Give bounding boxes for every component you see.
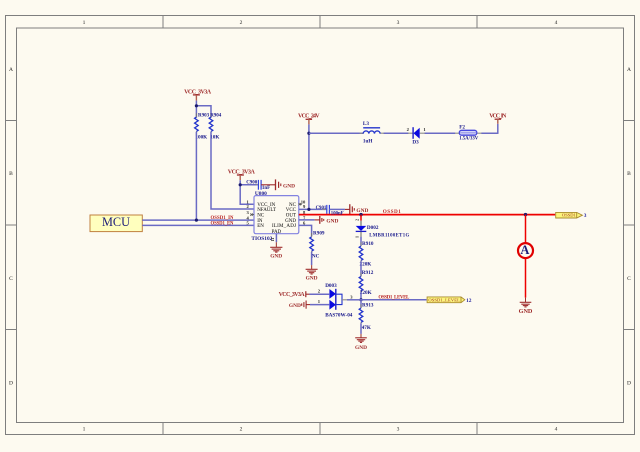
svg-text:VCC_3V3A: VCC_3V3A (279, 292, 306, 298)
svg-text:2: 2 (240, 427, 243, 433)
node rail junction (307, 132, 310, 135)
svg-text:C: C (9, 276, 13, 282)
svg-text:B: B (9, 171, 13, 177)
svg-text:OSSD1_LEVEL: OSSD1_LEVEL (378, 295, 410, 300)
svg-text:GND: GND (285, 219, 296, 224)
resistor R904 (209, 113, 222, 140)
svg-text:OSSD1: OSSD1 (562, 213, 576, 218)
capacitor C901 (316, 205, 330, 214)
svg-text:R913: R913 (362, 302, 374, 308)
svg-text:3: 3 (584, 213, 587, 219)
node pin9 junction (307, 208, 310, 211)
svg-text:100nF: 100nF (331, 211, 344, 216)
inductor L3 (360, 121, 384, 145)
svg-text:NFAULT: NFAULT (257, 208, 276, 213)
svg-text:EN: EN (257, 224, 264, 229)
wire R903 down to OSSD1_IN (195, 132, 197, 220)
resistor R913 (359, 300, 374, 331)
resistor R909 (310, 230, 325, 259)
wire VCC_3V3A down to divider junction (195, 101, 197, 118)
pin 3 NC stub (251, 214, 254, 216)
svg-text:D: D (9, 381, 13, 387)
power VCC_3V3A (D003) (279, 291, 310, 298)
diode D003 BAS70W-04 (325, 283, 353, 318)
svg-text:F2: F2 (459, 124, 465, 130)
svg-text:C900: C900 (246, 180, 258, 185)
power VCC_IN (489, 114, 507, 124)
MCU block (90, 215, 142, 232)
ground GND (pin7) (299, 216, 339, 224)
pin 10 NC stub (299, 203, 302, 205)
svg-text:1: 1 (83, 20, 86, 26)
diode D3 (407, 127, 427, 145)
svg-text:MCU: MCU (102, 215, 130, 229)
wire R912 to node (360, 292, 362, 300)
wire OSSD1_EN MCU to U800 pin5 (142, 224, 254, 226)
ground GND (C901) (329, 204, 368, 214)
wire VCC_3V3A to C900 node and pin1 (240, 180, 254, 204)
svg-text:12: 12 (466, 298, 472, 304)
svg-text:4: 4 (555, 427, 558, 433)
svg-text:GND: GND (355, 345, 367, 351)
svg-text:4: 4 (555, 20, 558, 26)
svg-text:IN: IN (257, 219, 263, 224)
svg-text:1: 1 (354, 236, 359, 238)
svg-text:GND: GND (326, 218, 338, 224)
ground GND (R913) (355, 338, 367, 343)
svg-text:100K: 100K (195, 135, 207, 141)
svg-text:D002: D002 (367, 225, 379, 231)
resistor R910 (359, 241, 374, 268)
node C900 junction (239, 183, 242, 186)
fuse F2 (455, 124, 482, 141)
ground GND (C900) (261, 179, 295, 190)
svg-text:C: C (627, 276, 631, 282)
power VCC_24V (298, 114, 320, 125)
svg-text:3: 3 (397, 427, 400, 433)
svg-text:D003: D003 (325, 283, 337, 289)
wire ammeter bottom (red) (525, 258, 527, 298)
port OSSD1_LEVEL pin12 (427, 297, 472, 304)
svg-text:GND: GND (289, 303, 301, 309)
svg-text:B: B (627, 171, 631, 177)
ground GND (D003 pin1) (289, 301, 310, 309)
resistor R903 (195, 113, 210, 140)
svg-text:GND: GND (519, 308, 533, 315)
wire node to OSSD1_LEVEL port (361, 299, 427, 301)
svg-text:VCC: VCC (286, 208, 297, 213)
svg-text:U800: U800 (255, 191, 267, 197)
node divider top junction (195, 104, 198, 107)
svg-text:R904: R904 (210, 114, 222, 119)
svg-text:R903: R903 (198, 114, 210, 119)
wire R910 to R912 (360, 261, 362, 276)
wire GND to D003 pin1 (310, 304, 329, 306)
wire PAD pin11 (275, 234, 277, 243)
svg-text:A: A (520, 243, 529, 257)
svg-text:OSSD1_LEVEL: OSSD1_LEVEL (428, 298, 460, 303)
svg-text:2: 2 (240, 20, 243, 26)
svg-text:D3: D3 (412, 139, 419, 145)
wire D003 pin3 to node (347, 299, 361, 301)
svg-text:GND: GND (306, 275, 318, 281)
op IC U800 TIOS102 (247, 191, 306, 242)
wire ammeter top (red) (525, 215, 527, 244)
node ammeter junction (524, 213, 527, 216)
svg-text:3: 3 (397, 20, 400, 26)
svg-text:R909: R909 (313, 230, 325, 236)
wire R909 to GND (311, 252, 313, 265)
svg-text:GND: GND (270, 254, 282, 260)
svg-text:2: 2 (354, 219, 359, 221)
wire pin9 VCC to C901 (299, 208, 327, 210)
svg-text:1uH: 1uH (363, 138, 373, 144)
svg-text:BAS70W-04: BAS70W-04 (325, 312, 353, 318)
svg-text:47K: 47K (362, 325, 371, 331)
svg-text:OUT: OUT (286, 213, 296, 218)
node OSSD1_LEVEL junction (359, 298, 362, 301)
svg-text:R912: R912 (362, 270, 374, 276)
svg-text:OSSD1: OSSD1 (383, 209, 401, 215)
wire R913 to GND (360, 323, 362, 334)
power VCC_3V3A (top left) (184, 89, 212, 100)
svg-text:A: A (627, 67, 631, 73)
resistor R912 (359, 270, 374, 296)
ground GND (PAD) (270, 247, 282, 252)
ammeter A (518, 243, 533, 258)
svg-text:GND: GND (283, 183, 295, 189)
diode D002 (354, 215, 409, 239)
svg-text:L3: L3 (363, 121, 369, 127)
svg-text:D: D (627, 381, 631, 387)
wire OSSD1_IN MCU to U800 pin4 (142, 219, 254, 221)
wire D002 to R910 (360, 231, 362, 237)
svg-text:LMBR1100ET1G: LMBR1100ET1G (369, 234, 409, 239)
svg-text:C901: C901 (316, 206, 327, 211)
svg-text:R910: R910 (362, 241, 374, 247)
svg-text:NC: NC (257, 213, 265, 218)
svg-text:ILIM_ADJ: ILIM_ADJ (272, 224, 296, 229)
wire jog to R904 (196, 106, 211, 118)
ground GND (R909) (306, 269, 318, 274)
capacitor C900 (246, 180, 270, 191)
svg-text:GND: GND (356, 208, 368, 214)
svg-text:A: A (9, 67, 13, 73)
wire C900 branch (240, 184, 257, 186)
svg-text:11: 11 (270, 238, 275, 242)
port OSSD1 pin3 (556, 212, 587, 219)
wire pin6 ILIM_ADJ to R909 (299, 225, 312, 236)
svg-text:NC: NC (312, 254, 320, 260)
node OSSD1_IN junction (195, 219, 198, 222)
svg-text:OSSD1_EN: OSSD1_EN (211, 222, 235, 227)
wire VCC_3V3A to D003 pin2 (310, 293, 330, 295)
wire rail segments (309, 124, 498, 134)
node OUT/D002 junction (359, 213, 362, 216)
svg-text:1.5A/33V: 1.5A/33V (459, 137, 479, 142)
svg-text:1: 1 (83, 427, 86, 433)
svg-text:OSSD1_IN: OSSD1_IN (211, 216, 235, 221)
wire R904 down to pin2 NFAULT (211, 132, 254, 209)
power VCC_3V3A (above C900) (228, 170, 256, 181)
ground GND (ammeter) (519, 298, 533, 316)
wire OSSD1 red output (299, 214, 555, 216)
wire VCC_24V vertical to pin9 node (308, 124, 310, 209)
